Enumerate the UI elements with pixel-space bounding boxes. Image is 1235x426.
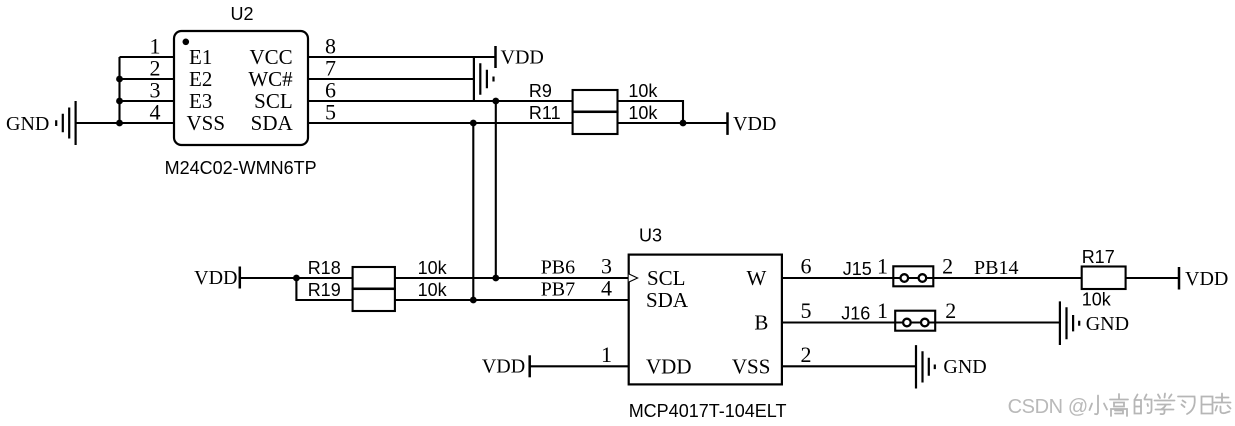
- wire R17 to VDD: [1126, 277, 1179, 279]
- svg-text:SDA: SDA: [646, 288, 689, 312]
- svg-text:VSS: VSS: [732, 354, 771, 378]
- svg-text:VSS: VSS: [187, 111, 226, 135]
- svg-text:1: 1: [601, 342, 612, 367]
- svg-text:1: 1: [877, 254, 888, 279]
- watermark glyph de: [1135, 395, 1152, 414]
- svg-text:5: 5: [801, 298, 812, 323]
- wire pin 3: [120, 100, 175, 102]
- svg-text:VDD: VDD: [646, 354, 692, 378]
- wire GND to bus: [76, 122, 120, 124]
- watermark glyph xue: [1155, 394, 1175, 415]
- power ground symbol at U2 E1-E3/VSS: [56, 101, 75, 145]
- wire R9 right to R11 net: [618, 101, 684, 123]
- U2 pin-1 marker dot: [183, 39, 190, 46]
- svg-text:GND: GND: [1086, 313, 1129, 335]
- svg-text:10k: 10k: [418, 258, 448, 278]
- svg-text:GND: GND: [943, 356, 986, 378]
- svg-text:R11: R11: [529, 103, 561, 123]
- svg-text:2: 2: [801, 342, 812, 367]
- junction pin3: [116, 98, 123, 105]
- svg-text:1: 1: [877, 298, 888, 323]
- wire VDD to junction: [240, 277, 297, 279]
- svg-text:R19: R19: [308, 280, 341, 300]
- svg-text:10k: 10k: [418, 280, 448, 300]
- J15 pad 1: [901, 274, 909, 282]
- junction PB6: [492, 275, 499, 282]
- junction R9/R11: [680, 120, 687, 127]
- svg-text:E1: E1: [189, 45, 212, 69]
- J16 pad 2: [921, 319, 929, 327]
- wire pin 4: [120, 122, 175, 124]
- svg-text:CSDN @: CSDN @: [1008, 396, 1088, 418]
- power ground symbol at WC#: [474, 57, 494, 102]
- svg-text:VDD: VDD: [501, 47, 544, 69]
- svg-text:R18: R18: [308, 258, 341, 278]
- watermark glyph xi: [1178, 397, 1195, 415]
- svg-text:J15: J15: [843, 259, 872, 279]
- svg-text:PB7: PB7: [541, 279, 575, 301]
- svg-text:W: W: [746, 266, 766, 290]
- wire pin 5 SDA: [308, 122, 573, 124]
- wire PB6: [395, 277, 629, 279]
- wire SDA down to PB7: [472, 123, 474, 300]
- resistor R11 body: [573, 112, 618, 134]
- svg-text:M24C02-WMN6TP: M24C02-WMN6TP: [165, 158, 317, 178]
- junction VDD split: [293, 275, 300, 282]
- resistor R19 body: [353, 289, 395, 311]
- svg-text:VDD: VDD: [1185, 268, 1228, 290]
- svg-text:MCP4017T-104ELT: MCP4017T-104ELT: [629, 401, 787, 421]
- resistor R17 body: [1082, 267, 1126, 290]
- svg-text:PB14: PB14: [974, 257, 1018, 279]
- power ground symbol (J16): [1060, 301, 1079, 345]
- svg-text:E3: E3: [189, 89, 212, 113]
- svg-text:4: 4: [601, 276, 612, 301]
- svg-text:VDD: VDD: [733, 113, 776, 135]
- wire pin 7 WC#: [308, 78, 474, 80]
- svg-text:VDD: VDD: [194, 267, 237, 289]
- wire bus vertical pins 1-4: [118, 57, 120, 123]
- svg-text:WC#: WC#: [248, 67, 293, 91]
- junction SCL: [492, 98, 499, 105]
- svg-text:E2: E2: [189, 67, 212, 91]
- power port VDD bar (VCC): [494, 46, 497, 68]
- svg-text:6: 6: [801, 254, 812, 279]
- svg-text:SCL: SCL: [647, 266, 686, 290]
- J15 pad 2: [919, 274, 927, 282]
- svg-text:SDA: SDA: [251, 111, 294, 135]
- power port VDD bar (R17): [1178, 267, 1181, 290]
- junction pin2: [116, 76, 123, 83]
- wire PB7: [395, 299, 629, 301]
- svg-text:B: B: [754, 311, 768, 335]
- wire through J15: [894, 277, 1082, 279]
- wire pin 1: [120, 56, 175, 58]
- svg-text:PB6: PB6: [541, 257, 575, 279]
- J16 pad 1: [903, 319, 911, 327]
- svg-text:2: 2: [945, 298, 956, 323]
- svg-text:R17: R17: [1082, 247, 1115, 267]
- power ground symbol (VSS): [916, 345, 935, 388]
- wire SCL down to PB6: [495, 101, 497, 278]
- wire W to J15: [782, 277, 894, 279]
- svg-text:VDD: VDD: [482, 356, 525, 378]
- svg-text:5: 5: [325, 100, 336, 125]
- svg-text:J16: J16: [841, 304, 870, 324]
- svg-text:SCL: SCL: [254, 89, 293, 113]
- resistor R18/R19 shared edge: [353, 288, 395, 291]
- svg-text:R9: R9: [529, 81, 552, 101]
- IC U3 body: [629, 255, 782, 385]
- power port VDD bar (R18/R19): [239, 267, 242, 289]
- wire B to J16: [782, 321, 895, 323]
- jumper J15 body: [893, 266, 933, 286]
- svg-text:U3: U3: [639, 226, 662, 246]
- wire VDD to U3 pin 1: [530, 365, 629, 367]
- power port VDD bar (U3 supply): [528, 355, 531, 377]
- wire VSS to ground: [782, 365, 916, 367]
- power port VDD bar (pullups): [726, 112, 729, 135]
- wire through J16: [895, 321, 1060, 323]
- watermark glyph xiao: [1090, 396, 1108, 415]
- IC U2 body: [174, 31, 308, 145]
- wire pin 2: [120, 78, 175, 80]
- watermark CSDN @xiaogao blog: [1008, 396, 1088, 418]
- resistor R9/R11 shared edge: [573, 111, 618, 114]
- svg-text:VCC: VCC: [250, 45, 293, 69]
- watermark glyph zhi: [1214, 394, 1231, 414]
- watermark glyph gao: [1110, 394, 1128, 416]
- SCL input chevron: [629, 274, 638, 282]
- svg-text:U2: U2: [231, 4, 254, 24]
- wire down to R19 row: [296, 278, 352, 300]
- watermark glyph ri: [1202, 397, 1213, 414]
- junction pin4: [116, 120, 123, 127]
- svg-text:10k: 10k: [628, 81, 658, 101]
- wire pin 6 SCL: [308, 100, 573, 102]
- junction PB7: [470, 297, 477, 304]
- wire to R18: [296, 277, 352, 279]
- svg-text:4: 4: [150, 100, 161, 125]
- resistor R18 body: [353, 267, 395, 289]
- junction SDA: [470, 120, 477, 127]
- svg-text:10k: 10k: [1082, 290, 1112, 310]
- svg-text:2: 2: [942, 254, 953, 279]
- resistor R9 body: [573, 90, 618, 112]
- svg-text:10k: 10k: [628, 103, 658, 123]
- svg-text:GND: GND: [6, 113, 49, 135]
- wire pin 8 VCC to VDD: [308, 56, 496, 58]
- wire R11 right to VDD: [618, 122, 728, 124]
- jumper J16 body: [895, 311, 935, 331]
